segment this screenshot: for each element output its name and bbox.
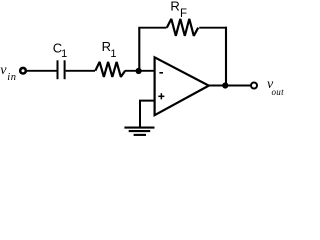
resistor R1 bbox=[95, 39, 125, 77]
op-amp U1 triangle bbox=[155, 57, 209, 115]
wire feedback right vertical bbox=[225, 27, 227, 86]
svg-text:F: F bbox=[180, 8, 187, 20]
op-amp plus sign bbox=[158, 93, 164, 99]
output terminal (open circle) bbox=[251, 83, 257, 89]
capacitor C1 bbox=[53, 41, 67, 80]
wire feedback top left segment bbox=[138, 27, 166, 29]
wire R1 to op-amp inverting input bbox=[125, 70, 155, 72]
wire non-inverting input to ground bbox=[140, 101, 155, 128]
svg-text:1: 1 bbox=[110, 48, 116, 60]
wire op-amp output bbox=[209, 85, 250, 87]
node vin label bbox=[0, 63, 16, 83]
wire feedback top right segment bbox=[199, 27, 227, 29]
output junction dot bbox=[222, 82, 228, 88]
input terminal (open circle) bbox=[20, 68, 26, 74]
resistor RF bbox=[167, 0, 198, 36]
wire input terminal to capacitor bbox=[26, 70, 56, 72]
wire capacitor to R1 bbox=[66, 70, 95, 72]
svg-text:in: in bbox=[7, 72, 16, 83]
wire feedback left vertical bbox=[138, 28, 140, 71]
svg-text:1: 1 bbox=[61, 48, 67, 60]
svg-text:R: R bbox=[170, 0, 179, 14]
svg-text:v: v bbox=[0, 63, 7, 78]
node A junction dot bbox=[136, 68, 142, 74]
ground bbox=[124, 128, 154, 135]
op-amp minus sign bbox=[159, 72, 163, 74]
node vout label bbox=[267, 77, 284, 97]
svg-text:out: out bbox=[272, 87, 285, 97]
